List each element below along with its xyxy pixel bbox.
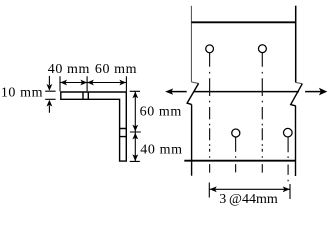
svg-text:60 mm: 60 mm	[95, 62, 137, 77]
svg-text:40 mm: 40 mm	[48, 62, 90, 77]
svg-text:40 mm: 40 mm	[140, 142, 182, 157]
svg-text:60 mm: 60 mm	[140, 105, 182, 120]
svg-text:10 mm: 10 mm	[1, 86, 43, 101]
svg-text:3 @44mm: 3 @44mm	[219, 192, 278, 207]
